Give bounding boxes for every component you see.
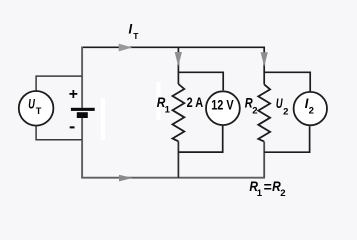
svg-text:2: 2 xyxy=(309,106,314,117)
label R1 = R2 equation xyxy=(249,178,285,199)
voltmeter 12 V xyxy=(206,91,240,125)
resistor R2 xyxy=(258,84,270,141)
svg-text:2: 2 xyxy=(280,188,285,199)
svg-text:2: 2 xyxy=(283,106,288,117)
resistor R1 xyxy=(173,84,185,141)
svg-text:U: U xyxy=(276,95,283,111)
arrow bottom rail xyxy=(119,175,133,182)
svg-text:12 V: 12 V xyxy=(211,97,234,113)
wire junction to voltmeter bottom xyxy=(178,126,222,152)
wire right branch bottom xyxy=(263,142,265,178)
svg-text:1: 1 xyxy=(257,188,263,199)
battery B1 xyxy=(71,108,95,118)
svg-text:2 A: 2 A xyxy=(187,94,204,110)
wire left vertical upper xyxy=(81,47,83,108)
label I_T xyxy=(129,21,140,41)
svg-text:2: 2 xyxy=(252,106,257,117)
label I_2 xyxy=(305,95,314,117)
wire source bottom lead xyxy=(36,126,82,140)
wire top rail xyxy=(81,46,265,48)
wire right branch top xyxy=(263,47,265,85)
label U_2 xyxy=(276,95,289,117)
svg-text:T: T xyxy=(133,31,139,41)
wire bottom rail xyxy=(81,177,265,179)
svg-text:1: 1 xyxy=(165,104,171,115)
wire junction to ammeter bottom xyxy=(264,126,309,152)
svg-text:=: = xyxy=(264,179,272,195)
wire junction to ammeter top xyxy=(264,72,310,91)
label minus xyxy=(70,126,75,128)
svg-text:U: U xyxy=(28,96,35,112)
label R_1 xyxy=(157,94,171,116)
wire junction to voltmeter top xyxy=(178,72,223,90)
svg-text:+: + xyxy=(69,86,78,103)
arrow right branch xyxy=(261,52,268,67)
ammeter I_2 xyxy=(294,92,327,125)
wire source top lead xyxy=(36,76,82,91)
wire left vertical lower xyxy=(81,118,83,178)
svg-text:T: T xyxy=(36,106,42,116)
label U_T xyxy=(28,96,42,117)
source U_T xyxy=(19,91,54,126)
wire middle branch top xyxy=(177,47,179,85)
wire middle branch bottom xyxy=(177,141,179,177)
arrow I_T on top rail xyxy=(119,44,133,52)
label R_2 xyxy=(245,94,258,116)
arrow middle branch xyxy=(175,52,182,67)
